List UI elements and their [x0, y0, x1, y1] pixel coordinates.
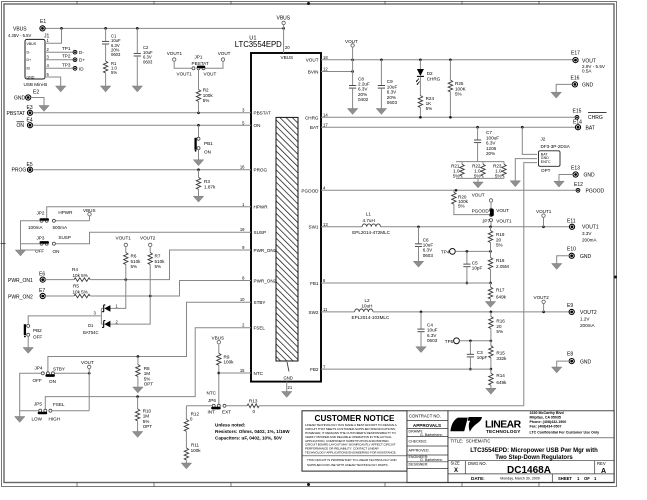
svg-text:E10: E10 — [567, 246, 576, 252]
svg-text:DC1468A: DC1468A — [507, 465, 551, 476]
svg-text:10pF: 10pF — [477, 355, 488, 360]
svg-text:ON: ON — [204, 149, 211, 154]
svg-text:INT: INT — [208, 410, 216, 415]
svg-text:200mA: 200mA — [582, 237, 597, 242]
svg-text:5%: 5% — [496, 243, 503, 248]
svg-text:DWG NO.: DWG NO. — [468, 461, 487, 466]
svg-text:VOUT: VOUT — [345, 39, 358, 44]
svg-text:VOUT1: VOUT1 — [582, 224, 599, 230]
svg-text:5%: 5% — [474, 174, 481, 179]
svg-text:BAT: BAT — [586, 125, 595, 131]
svg-text:JP5: JP5 — [34, 401, 42, 406]
svg-text:100k: 100k — [224, 360, 235, 365]
svg-text:1.2V: 1.2V — [580, 317, 590, 322]
svg-text:GND: GND — [14, 96, 26, 102]
svg-text:OPT: OPT — [541, 168, 551, 173]
svg-text:D1: D1 — [88, 323, 94, 328]
svg-text:19: 19 — [240, 227, 245, 232]
svg-text:VOUT: VOUT — [472, 193, 485, 198]
svg-text:JP4: JP4 — [35, 366, 43, 371]
svg-text:0: 0 — [190, 417, 193, 422]
svg-text:1.87k: 1.87k — [204, 184, 216, 189]
svg-text:FB2: FB2 — [310, 367, 319, 372]
svg-text:0.5A: 0.5A — [582, 69, 592, 74]
svg-text:E6: E6 — [39, 271, 45, 277]
svg-text:EPL2014-472MLC: EPL2014-472MLC — [352, 230, 390, 235]
svg-text:G. Barbehenn: G. Barbehenn — [420, 458, 442, 462]
svg-text:GND: GND — [27, 76, 35, 80]
svg-text:E15: E15 — [573, 108, 582, 114]
svg-text:TP1: TP1 — [62, 46, 71, 51]
svg-text:1630 McCarthy Blvd: 1630 McCarthy Blvd — [530, 411, 564, 415]
svg-text:E17: E17 — [571, 51, 580, 57]
svg-text:E12: E12 — [574, 182, 583, 188]
svg-text:10: 10 — [240, 297, 245, 302]
svg-text:GND: GND — [582, 83, 594, 89]
svg-text:5%: 5% — [453, 174, 460, 179]
svg-text:E16: E16 — [571, 75, 580, 81]
svg-text:EXT: EXT — [222, 410, 231, 415]
svg-text:APPROVED:: APPROVED: — [409, 449, 430, 453]
svg-text:ID: ID — [27, 67, 31, 71]
svg-text:3.3V: 3.3V — [582, 231, 592, 236]
svg-text:Resistors: Ohms, 0402, 1%, 1/1: Resistors: Ohms, 0402, 1%, 1/16W — [215, 429, 290, 434]
svg-text:R18: R18 — [496, 258, 505, 263]
svg-text:GND: GND — [580, 359, 592, 365]
svg-text:OF: OF — [584, 476, 590, 481]
svg-text:EPL2014-103MLC: EPL2014-103MLC — [352, 315, 390, 320]
svg-text:DESIGNER:: DESIGNER: — [409, 463, 429, 467]
svg-text:PWR_ON1: PWR_ON1 — [254, 248, 277, 253]
svg-text:VOUT2: VOUT2 — [580, 310, 597, 316]
svg-text:E5: E5 — [27, 162, 33, 168]
svg-text:10k 5%: 10k 5% — [73, 290, 88, 295]
svg-text:LTC Confidential For Customer: LTC Confidential For Customer Use Only — [530, 430, 600, 434]
svg-text:THIS CIRCUIT IS PROPRIETARY TO: THIS CIRCUIT IS PROPRIETARY TO LINEAR TE… — [307, 458, 397, 462]
svg-text:VBUS: VBUS — [13, 26, 27, 32]
svg-text:GND: GND — [584, 173, 596, 179]
svg-text:SUPPLIED FOR USE WITH LINEAR T: SUPPLIED FOR USE WITH LINEAR TECHNOLOGY … — [307, 463, 388, 467]
svg-text:0402: 0402 — [358, 97, 369, 102]
svg-text:CUSTOMER NOTICE: CUSTOMER NOTICE — [315, 414, 395, 423]
svg-text:5%: 5% — [458, 204, 465, 209]
svg-text:PB1: PB1 — [204, 141, 213, 146]
svg-text:FSEL: FSEL — [254, 326, 266, 331]
svg-text:VOUT: VOUT — [81, 360, 94, 365]
svg-text:10uH: 10uH — [362, 304, 373, 309]
svg-text:VOUT: VOUT — [204, 72, 217, 77]
svg-text:VOUT1: VOUT1 — [116, 236, 132, 241]
svg-text:D+: D+ — [79, 58, 85, 63]
svg-text:SIZE: SIZE — [451, 461, 461, 466]
svg-text:DF3-3P-2DSA: DF3-3P-2DSA — [541, 144, 571, 149]
svg-text:5%: 5% — [155, 264, 162, 269]
svg-text:R11: R11 — [191, 442, 200, 447]
svg-text:VOUT1: VOUT1 — [167, 51, 183, 56]
svg-text:L1: L1 — [366, 212, 372, 217]
svg-text:100mA: 100mA — [28, 225, 43, 230]
svg-text:CHRG: CHRG — [588, 115, 603, 121]
svg-text:REV: REV — [597, 461, 606, 466]
svg-text:LTC3554EPD: Micropower USB Pwr: LTC3554EPD: Micropower USB Pwr Mgr with — [470, 448, 598, 454]
svg-text:PBSTAT: PBSTAT — [7, 111, 26, 117]
svg-text:Capacitors: uF, 0402, 10%, 5: Capacitors: uF, 0402, 10%, 50V — [215, 435, 283, 440]
svg-text:500mA: 500mA — [53, 225, 68, 230]
svg-text:BVIN: BVIN — [308, 70, 319, 75]
svg-text:D2: D2 — [427, 71, 433, 76]
svg-text:0603: 0603 — [111, 52, 121, 57]
svg-text:10k 5%: 10k 5% — [73, 273, 88, 278]
svg-text:200mA: 200mA — [580, 323, 595, 328]
svg-text:5%: 5% — [455, 92, 462, 97]
svg-text:STBY: STBY — [53, 366, 65, 371]
svg-text:TECHNOLOGY APPLICATIONS ENGINE: TECHNOLOGY APPLICATIONS ENGINEERING FOR … — [305, 451, 397, 455]
svg-text:0: 0 — [253, 409, 256, 414]
svg-text:VBUS: VBUS — [277, 16, 291, 22]
svg-text:VOUT1: VOUT1 — [536, 209, 552, 214]
svg-text:L2: L2 — [365, 298, 371, 303]
svg-text:USB Mini-B: USB Mini-B — [24, 82, 48, 87]
svg-text:PBSTAT: PBSTAT — [254, 110, 271, 115]
svg-text:D-: D- — [79, 50, 84, 55]
svg-text:R14: R14 — [496, 373, 505, 378]
svg-text:R13: R13 — [249, 399, 258, 404]
svg-text:HPWR: HPWR — [254, 205, 269, 210]
svg-text:G. Barbehenn: G. Barbehenn — [420, 433, 442, 437]
svg-text:13: 13 — [323, 222, 328, 227]
svg-text:PB2: PB2 — [33, 328, 42, 333]
svg-text:R4: R4 — [72, 267, 78, 272]
svg-text:D+: D+ — [27, 58, 32, 62]
svg-text:CHECKED:: CHECKED: — [409, 440, 428, 444]
svg-text:NTC: NTC — [254, 371, 264, 376]
svg-text:5%: 5% — [203, 98, 210, 103]
svg-text:E3: E3 — [27, 105, 33, 111]
svg-text:17: 17 — [323, 122, 328, 127]
svg-text:PGOOD: PGOOD — [586, 189, 605, 195]
svg-text:VBUS: VBUS — [27, 42, 37, 46]
svg-text:5%: 5% — [496, 329, 503, 334]
svg-text:649k: 649k — [496, 380, 507, 385]
svg-text:100k: 100k — [191, 448, 202, 453]
svg-text:E11: E11 — [567, 218, 576, 224]
svg-text:PGOOD: PGOOD — [472, 208, 490, 213]
svg-text:E1: E1 — [40, 19, 46, 25]
svg-text:PWR_ON1: PWR_ON1 — [8, 278, 33, 284]
svg-text:CONTRACT NO.: CONTRACT NO. — [409, 414, 441, 419]
svg-text:5%: 5% — [495, 174, 502, 179]
svg-text:5%: 5% — [131, 264, 138, 269]
svg-text:PGOOD: PGOOD — [301, 188, 319, 193]
svg-text:18: 18 — [323, 55, 328, 60]
svg-text:14: 14 — [323, 113, 328, 118]
svg-text:VBUS: VBUS — [212, 336, 225, 341]
svg-text:ON: ON — [254, 123, 261, 128]
svg-text:SUSP: SUSP — [254, 230, 267, 235]
svg-text:JP1: JP1 — [195, 55, 203, 60]
svg-text:ON: ON — [49, 379, 56, 384]
svg-text:VOUT1: VOUT1 — [496, 218, 512, 223]
svg-text:ON: ON — [53, 249, 60, 254]
svg-text:2.05M: 2.05M — [496, 264, 509, 269]
svg-text:Monday, March 30, 2009: Monday, March 30, 2009 — [500, 477, 540, 481]
svg-text:15: 15 — [240, 368, 245, 373]
svg-text:PWR_ON2: PWR_ON2 — [254, 278, 277, 283]
svg-text:PWR_ON2: PWR_ON2 — [8, 295, 33, 301]
svg-text:SHEET: SHEET — [558, 476, 572, 481]
svg-text:JP7: JP7 — [482, 218, 490, 223]
svg-text:VOUT2: VOUT2 — [140, 236, 156, 241]
svg-text:R17: R17 — [496, 288, 505, 293]
svg-text:E14: E14 — [573, 119, 582, 125]
svg-text:VOUT1: VOUT1 — [177, 72, 193, 77]
svg-text:CHRG: CHRG — [305, 115, 319, 120]
svg-text:TP5: TP5 — [445, 339, 454, 344]
svg-text:FSEL: FSEL — [53, 402, 65, 407]
svg-text:649k: 649k — [496, 295, 507, 300]
svg-text:APPROVALS: APPROVALS — [413, 423, 441, 428]
svg-text:JP2: JP2 — [37, 210, 45, 215]
svg-text:12: 12 — [323, 67, 328, 72]
svg-text:E7: E7 — [39, 288, 45, 294]
svg-text:ENTC: ENTC — [541, 160, 551, 164]
svg-text:SW1: SW1 — [309, 225, 319, 230]
svg-text:SUSP: SUSP — [58, 235, 71, 240]
svg-text:20: 20 — [285, 45, 290, 50]
svg-text:TP2: TP2 — [62, 54, 71, 59]
svg-text:10pF: 10pF — [472, 266, 483, 271]
svg-text:ID: ID — [79, 66, 84, 71]
svg-text:Phone: (408)432-1900: Phone: (408)432-1900 — [530, 420, 567, 424]
svg-text:PROG: PROG — [254, 167, 268, 172]
svg-text:0603: 0603 — [387, 100, 398, 105]
svg-text:20%: 20% — [486, 151, 495, 156]
svg-text:0603: 0603 — [143, 59, 153, 64]
svg-text:JP6: JP6 — [208, 398, 216, 403]
svg-text:VOUT: VOUT — [218, 51, 231, 56]
svg-text:BAT: BAT — [310, 125, 319, 130]
svg-text:FB1: FB1 — [310, 281, 319, 286]
svg-text:X: X — [454, 468, 458, 474]
svg-text:E4: E4 — [27, 118, 33, 124]
svg-text:VOUT2: VOUT2 — [534, 295, 550, 300]
svg-text:OPT: OPT — [144, 382, 154, 387]
svg-text:Unless noted:: Unless noted: — [215, 423, 246, 428]
svg-text:LOW: LOW — [32, 417, 43, 422]
svg-text:J2: J2 — [541, 137, 546, 142]
svg-text:NTC: NTC — [207, 391, 217, 396]
svg-text:E9: E9 — [567, 303, 573, 309]
svg-text:STBY: STBY — [254, 300, 266, 305]
svg-text:TITLE:: TITLE: — [451, 438, 464, 443]
svg-text:VBUS: VBUS — [83, 208, 96, 213]
svg-text:HIGH: HIGH — [49, 417, 60, 422]
svg-text:TP3: TP3 — [62, 62, 71, 67]
svg-text:11: 11 — [323, 307, 328, 312]
svg-text:PBSTAT: PBSTAT — [192, 61, 209, 66]
svg-text:E2: E2 — [33, 90, 39, 96]
svg-text:OFF: OFF — [33, 378, 42, 383]
svg-text:SCHEMATIC: SCHEMATIC — [466, 438, 490, 443]
svg-text:16: 16 — [240, 165, 245, 170]
svg-text:BAT54C: BAT54C — [83, 330, 99, 335]
svg-text:4.7uH: 4.7uH — [363, 218, 375, 223]
svg-text:0603: 0603 — [427, 338, 438, 343]
svg-text:4.35V - 5.5V: 4.35V - 5.5V — [8, 33, 31, 38]
svg-text:R2: R2 — [203, 87, 209, 92]
svg-text:OFF: OFF — [33, 335, 42, 340]
svg-text:100k: 100k — [203, 93, 214, 98]
svg-text:R15: R15 — [496, 351, 505, 356]
svg-text:HPWR: HPWR — [58, 210, 73, 215]
svg-text:Milpitas, CA 95035: Milpitas, CA 95035 — [530, 416, 561, 420]
svg-text:Fax: (408)434-0507: Fax: (408)434-0507 — [530, 424, 562, 428]
svg-text:VBUS: VBUS — [281, 55, 294, 60]
svg-text:5%: 5% — [426, 106, 433, 111]
svg-text:GND: GND — [284, 375, 293, 380]
svg-text:5%: 5% — [111, 70, 117, 75]
svg-text:OFF: OFF — [35, 248, 44, 253]
svg-text:SW2: SW2 — [309, 310, 319, 315]
svg-text:DATE:: DATE: — [471, 476, 485, 481]
svg-text:21: 21 — [288, 385, 293, 390]
svg-text:Two Step-Down Regulators: Two Step-Down Regulators — [495, 455, 573, 461]
svg-text:GND: GND — [580, 254, 592, 260]
svg-text:LTC3554EPD: LTC3554EPD — [235, 40, 282, 49]
svg-text:JP3: JP3 — [37, 236, 45, 241]
svg-text:0603: 0603 — [423, 253, 434, 258]
svg-text:OPT: OPT — [143, 424, 153, 429]
svg-text:VOUT: VOUT — [306, 58, 319, 63]
svg-text:ON: ON — [17, 123, 25, 129]
svg-text:E8: E8 — [567, 352, 573, 358]
svg-text:332k: 332k — [496, 356, 507, 361]
svg-text:VOUT: VOUT — [496, 208, 509, 213]
svg-text:PROG: PROG — [12, 168, 27, 174]
svg-text:E13: E13 — [571, 166, 580, 172]
svg-text:TP4: TP4 — [441, 249, 450, 254]
svg-text:R5: R5 — [73, 284, 79, 289]
svg-text:TECHNOLOGY: TECHNOLOGY — [486, 429, 521, 434]
svg-text:CHRG: CHRG — [427, 77, 441, 82]
